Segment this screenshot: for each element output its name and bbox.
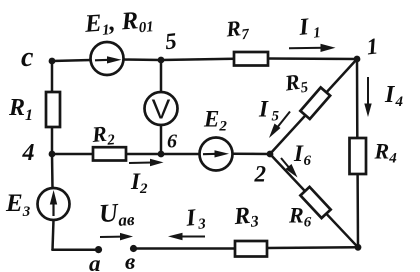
svg-text:E3: E3 [5,190,31,220]
svg-text:в: в [125,249,135,272]
svg-text:I2: I2 [130,169,148,197]
svg-text:I4: I4 [384,82,404,110]
wire c to E1 [52,60,91,61]
wire E2 to node 2 [233,153,271,156]
resistor R2 [93,147,126,160]
svg-text:R1: R1 [8,95,33,124]
current arrow I2 [129,159,164,167]
svg-text:V: V [152,94,171,125]
resistor R3 [235,241,267,257]
node 2 [267,151,274,158]
svg-text:E1, R01: E1, R01 [83,6,154,40]
svg-text:c: c [21,42,34,73]
svg-text:R3: R3 [232,202,259,232]
resistor R1 [46,92,60,127]
svg-text:R7: R7 [224,15,250,45]
svg-text:I1: I1 [297,13,321,43]
svg-text:R4: R4 [374,139,398,167]
svg-text:Uав: Uав [98,197,135,231]
terminal b [130,245,137,252]
wire node 4 to R2 [52,153,93,156]
wire node b to R3 [134,247,235,250]
svg-text:5: 5 [164,28,178,54]
source E2 [200,138,233,171]
current arrow I5 [269,112,290,139]
wire E3 to bottom corner [53,220,54,250]
wire node 6 to E2 [161,153,200,156]
wire diagonal node 1 to node 2 [270,59,357,154]
terminal a [95,246,102,253]
svg-text:1: 1 [365,33,379,59]
svg-text:I5: I5 [258,97,280,125]
wire R4 to bottom right node [356,174,359,247]
wire R3 to bottom right node [267,246,358,249]
wire bottom corner to node a [53,249,98,252]
node 1 [354,56,361,63]
svg-text:6: 6 [167,131,177,153]
resistor R4 [350,138,367,174]
svg-text:E2: E2 [203,107,227,135]
svg-text:R5: R5 [282,68,309,99]
wire node 4 to E3 [51,154,54,188]
arrow inside E3 [50,190,57,216]
voltage arrow Uab [100,233,133,241]
resistor R7 [234,52,268,66]
svg-text:2: 2 [254,162,267,187]
voltmeter V [145,92,178,125]
resistor R6 [300,187,330,218]
wire voltmeter to node 6 [160,125,163,154]
wire R1 to node 4 [51,127,54,154]
wire node 5 to R7 [161,59,234,60]
node c [49,58,56,65]
arrow inside E1 [95,56,122,63]
resistor R5 [300,87,330,119]
wire E1 to node 5 [123,58,161,61]
node 6 [158,151,165,158]
wire node 5 to voltmeter [160,60,163,92]
wire c to R1 [51,61,54,92]
wire node 1 to R4 [356,59,359,138]
current arrow I3 [168,233,205,241]
wire R2 to node 6 [126,153,161,156]
wire diagonal node 2 to bottom right node [270,154,358,247]
svg-text:R2: R2 [90,120,116,150]
current arrow I1 [289,44,336,52]
arrow inside E2 [203,150,229,157]
svg-text:R6: R6 [288,203,312,231]
svg-text:I6: I6 [293,141,312,169]
svg-text:I3: I3 [184,204,207,234]
source E1 [91,42,124,75]
node 5 [158,57,165,64]
source E3 [38,188,70,220]
wire R7 to node 1 [268,57,357,60]
current arrow I4 [364,77,371,117]
node bottom-right [355,244,362,251]
node 4 [49,151,56,158]
current arrow I6 [281,158,298,178]
svg-text:a: a [89,251,101,272]
svg-text:4: 4 [22,140,35,166]
